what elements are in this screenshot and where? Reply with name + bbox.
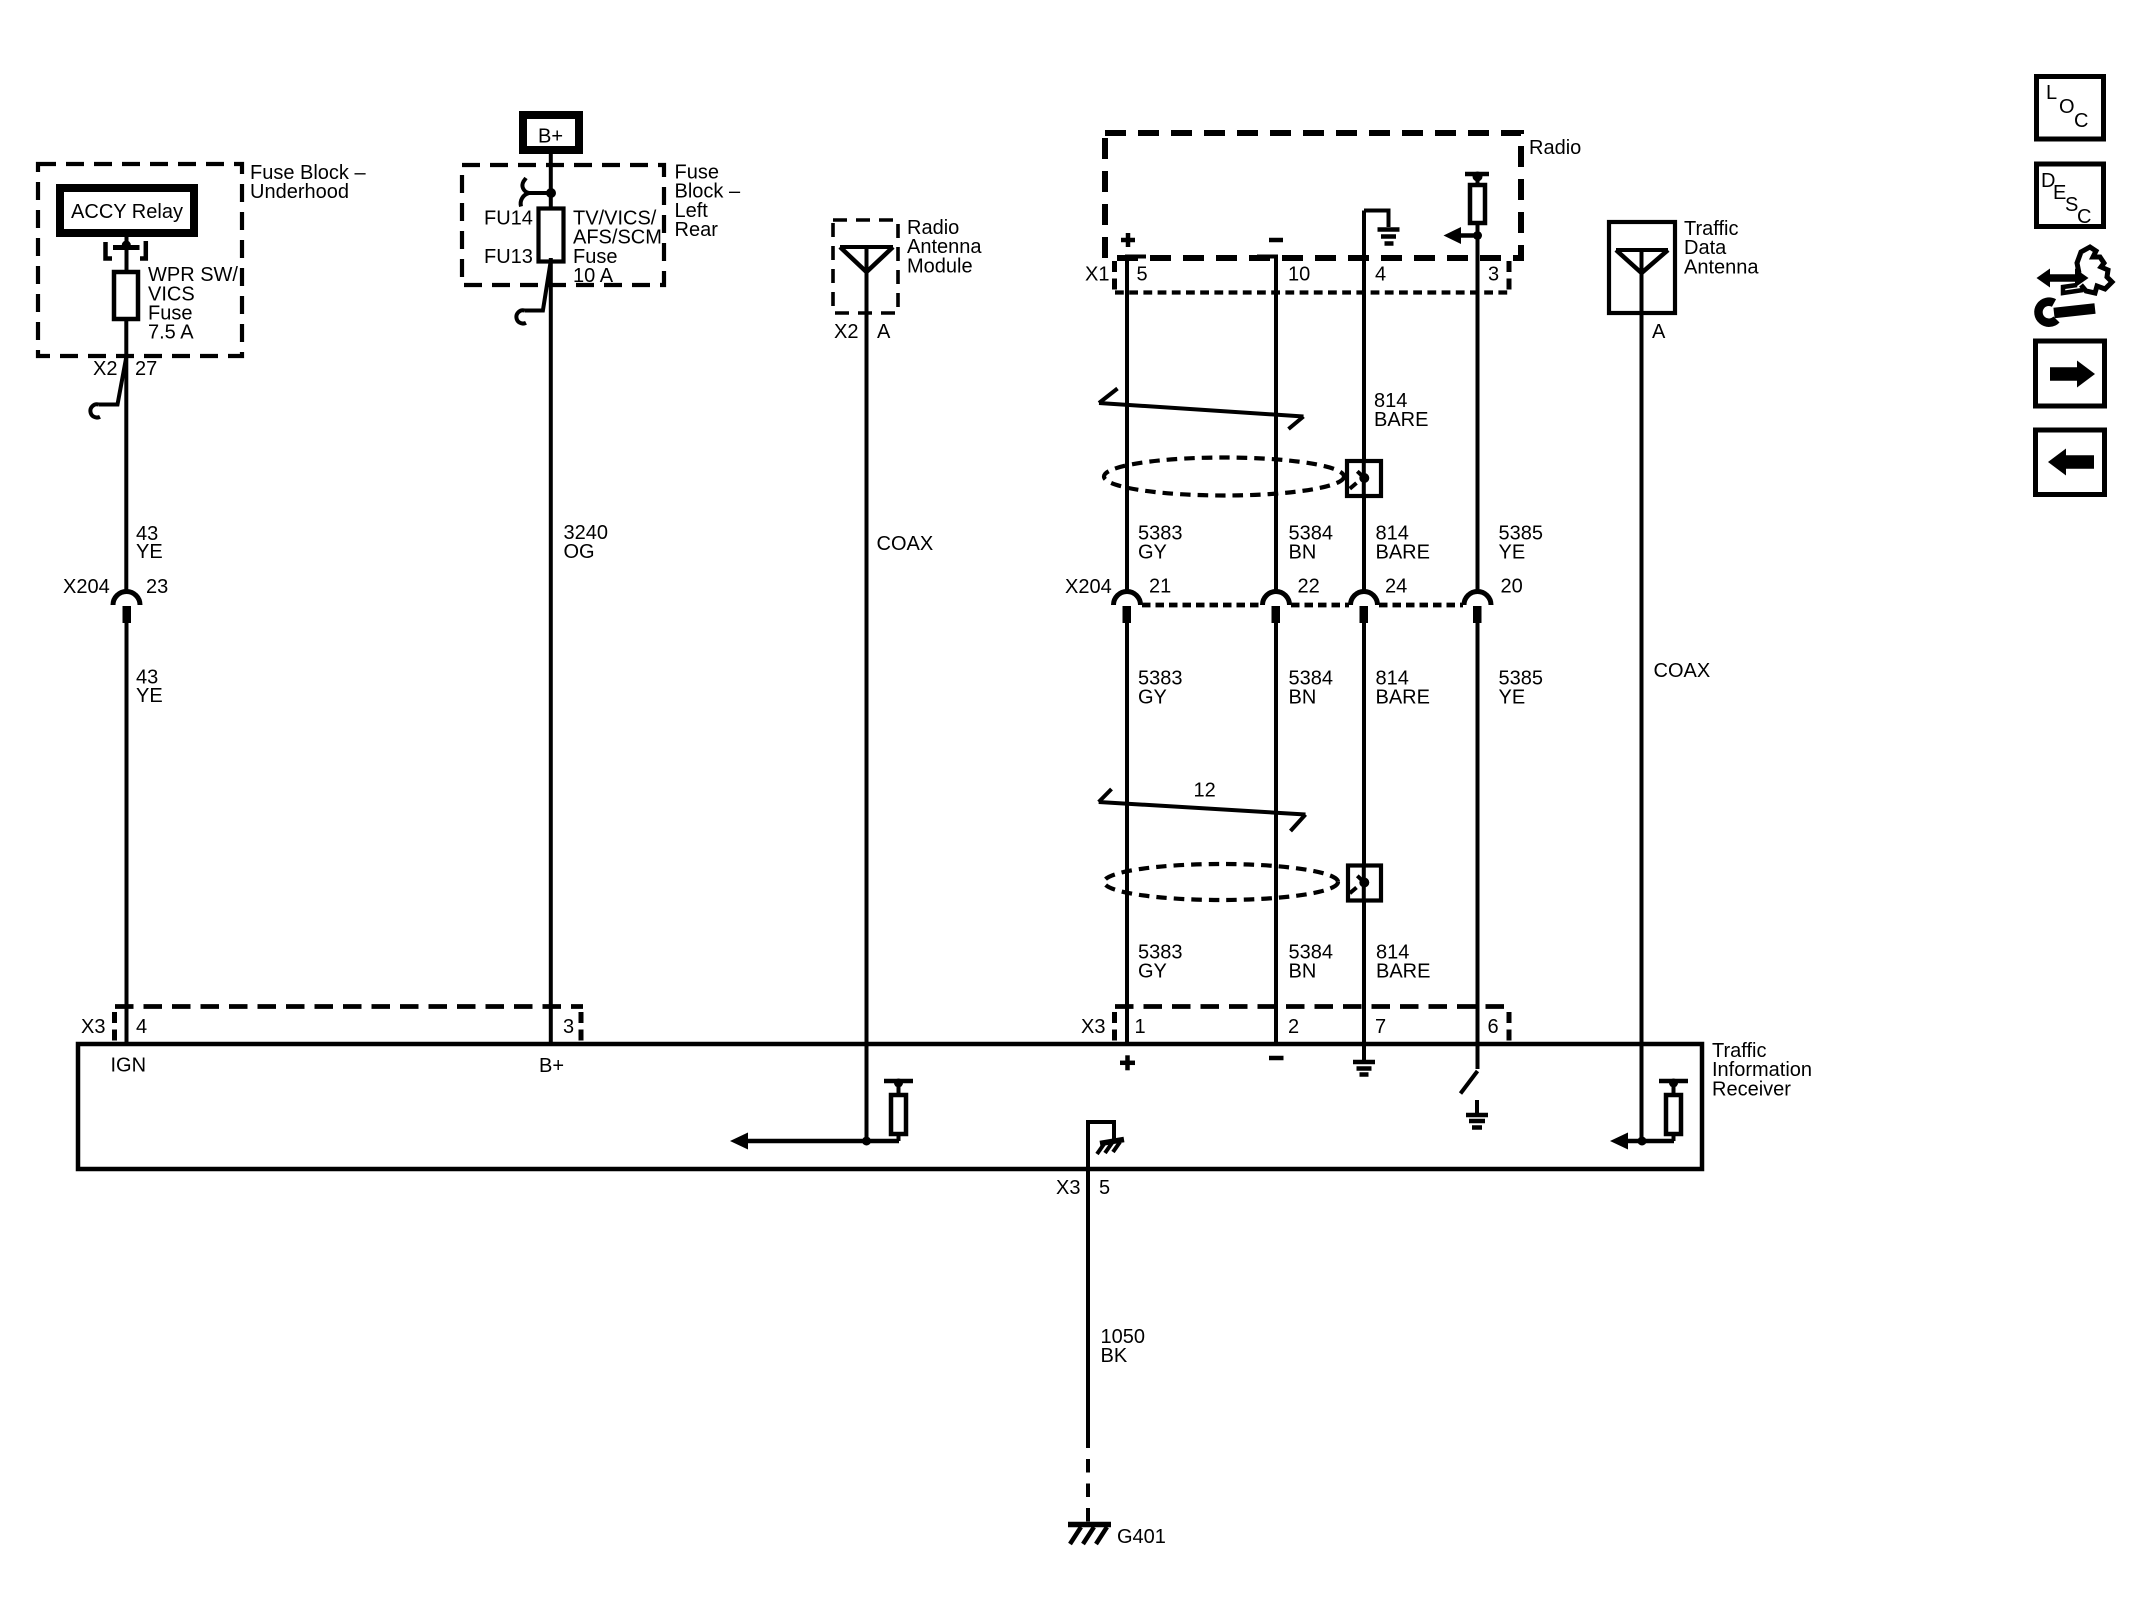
wire 814 BARE radio to X204: [1362, 211, 1366, 594]
radio dashed box: [1105, 133, 1521, 258]
svg-text:BK: BK: [1101, 1345, 1128, 1367]
label 5383 GY row2: [1138, 667, 1183, 708]
svg-text:BN: BN: [1289, 542, 1317, 564]
svg-text:YE: YE: [136, 685, 163, 707]
svg-text:7.5 A: 7.5 A: [148, 322, 194, 344]
label 5384 BN row1: [1289, 523, 1334, 564]
label 3240 OG: [564, 522, 609, 563]
wire 5383 GY X204 to X3: [1125, 623, 1129, 1044]
svg-text:C: C: [2074, 110, 2088, 132]
svg-text:Radio: Radio: [1529, 137, 1581, 159]
wire fuse to X204: [124, 319, 128, 593]
svg-text:GY: GY: [1138, 687, 1167, 709]
radio terminal minus: [1269, 238, 1283, 243]
svg-text:X3: X3: [1081, 1016, 1105, 1038]
connector X3 left row: [81, 1007, 583, 1042]
wire 3240 OG: [549, 258, 553, 1044]
pigtail at X2: [90, 357, 126, 418]
svg-text:COAX: COAX: [877, 533, 934, 555]
label Fuse Block Underhood: [250, 162, 366, 203]
radio internal resistor: [1465, 172, 1489, 236]
shield drain box lower: [1348, 866, 1381, 901]
svg-text:24: 24: [1385, 576, 1407, 598]
wire COAX left: [865, 313, 869, 1044]
svg-text:3: 3: [563, 1016, 574, 1038]
icon forward button: [2036, 341, 2105, 406]
splice dot and pigtail FU14: [521, 178, 556, 207]
wire 5383 GY radio to X204: [1127, 257, 1146, 594]
wire relay to fuse: [125, 233, 129, 272]
svg-text:ACCY Relay: ACCY Relay: [71, 201, 183, 223]
svg-text:O: O: [2059, 96, 2075, 118]
connector X3 right row: [1081, 1007, 1509, 1042]
svg-text:YE: YE: [136, 541, 163, 563]
svg-text:OG: OG: [564, 541, 595, 563]
svg-text:BARE: BARE: [1374, 409, 1428, 431]
traffic data antenna box: [1609, 222, 1675, 313]
label 43 YE upper: [136, 523, 163, 563]
connector X2 pin A labels: [834, 321, 891, 343]
svg-text:A: A: [877, 321, 891, 343]
wire 5384 BN radio to X204: [1257, 257, 1276, 594]
label Traffic Data Antenna: [1684, 218, 1759, 278]
fuse block left rear dashed box: [462, 165, 664, 285]
svg-text:5: 5: [1099, 1177, 1110, 1199]
shield drain box upper: [1347, 461, 1381, 496]
icon DESC button: [2037, 164, 2104, 228]
svg-text:GY: GY: [1138, 961, 1167, 983]
svg-text:B+: B+: [539, 1055, 564, 1077]
ground G401: [1068, 1525, 1111, 1545]
svg-text:4: 4: [136, 1016, 147, 1038]
wire 43 YE lower: [125, 623, 129, 1044]
label 814 BARE row1: [1376, 523, 1430, 564]
fuse WPR SW/VICS 7.5 A: [114, 272, 138, 319]
shield ellipse upper: [1104, 458, 1344, 496]
svg-text:A: A: [1652, 321, 1666, 343]
svg-text:YE: YE: [1499, 542, 1526, 564]
receiver pin 7 ground: [1353, 1044, 1375, 1075]
label 43 YE lower: [136, 667, 163, 707]
label 5383 GY row3: [1138, 941, 1183, 982]
label 5385 YE row1: [1499, 523, 1544, 564]
label Radio Antenna Module: [907, 217, 982, 277]
label 5384 BN row2: [1289, 667, 1334, 708]
fuse block underhood dashed box: [38, 164, 242, 356]
svg-text:X204: X204: [63, 576, 110, 598]
label Traffic Information Receiver: [1712, 1040, 1812, 1100]
receiver internal ground at X3 pin 5: [1088, 1122, 1124, 1169]
svg-text:BARE: BARE: [1376, 961, 1430, 983]
receiver X1 coax input arrow and resistor: [1610, 1044, 1688, 1150]
icon LOC button: [2037, 77, 2104, 140]
svg-text:10 A: 10 A: [573, 265, 614, 287]
svg-text:L: L: [2046, 82, 2057, 104]
receiver pin 2 minus: [1269, 1056, 1284, 1061]
twisted pair arrow lower: [1099, 789, 1306, 831]
receiver pin 1 +: [1120, 1055, 1135, 1070]
radio antenna module dashed box: [833, 220, 898, 313]
receiver pin 6 switch to ground: [1461, 1044, 1489, 1128]
svg-text:5: 5: [1137, 264, 1148, 286]
svg-text:GY: GY: [1138, 542, 1167, 564]
label TV/VICS/AFS/SCM Fuse 10 A: [573, 208, 662, 288]
svg-text:BARE: BARE: [1376, 542, 1430, 564]
antenna symbol traffic data antenna: [1616, 250, 1668, 313]
receiver X2 coax input arrow and resistor: [730, 1044, 913, 1150]
label WPR SW/VICS Fuse 7.5 A: [148, 264, 238, 344]
svg-text:X204: X204: [1065, 576, 1112, 598]
svg-text:IGN: IGN: [111, 1055, 147, 1077]
svg-text:20: 20: [1501, 576, 1523, 598]
svg-text:1: 1: [1135, 1016, 1146, 1038]
label 814 BARE upper: [1374, 390, 1428, 431]
connector X204 row: [1065, 576, 1523, 623]
svg-text:Underhood: Underhood: [250, 181, 349, 203]
label 5383 GY row1: [1138, 523, 1183, 564]
antenna symbol radio antenna module: [840, 247, 893, 313]
radio terminal +: [1121, 233, 1135, 247]
connector X204 pin 23: [63, 576, 168, 623]
wire 5384 BN X204 to X3: [1274, 623, 1278, 1044]
wire B+ to fuse: [549, 154, 553, 208]
wire 814 BARE X204 to X3: [1362, 623, 1366, 1044]
label 814 BARE row3: [1376, 941, 1430, 982]
svg-text:3: 3: [1488, 264, 1499, 286]
svg-text:G401: G401: [1117, 1526, 1166, 1548]
relay contact: [106, 241, 146, 259]
icon workshop wrench: [2037, 247, 2113, 323]
svg-text:BN: BN: [1289, 687, 1317, 709]
svg-text:2: 2: [1288, 1016, 1299, 1038]
svg-text:7: 7: [1375, 1016, 1386, 1038]
svg-text:23: 23: [146, 576, 168, 598]
shield ellipse lower: [1104, 864, 1338, 900]
svg-text:YE: YE: [1499, 687, 1526, 709]
svg-text:21: 21: [1149, 576, 1171, 598]
svg-text:X2: X2: [93, 358, 117, 380]
svg-text:X2: X2: [834, 321, 858, 343]
twisted pair arrow upper: [1099, 389, 1304, 430]
svg-text:FU13: FU13: [484, 246, 533, 268]
svg-text:12: 12: [1194, 780, 1216, 802]
svg-text:C: C: [2077, 206, 2091, 228]
svg-text:X1: X1: [1085, 264, 1109, 286]
svg-text:FU14: FU14: [484, 207, 533, 229]
svg-text:4: 4: [1375, 264, 1386, 286]
fuse TV/VICS/AFS/SCM 10 A: [539, 209, 564, 262]
svg-text:22: 22: [1298, 576, 1320, 598]
wire dashed to ground: [1086, 1459, 1090, 1522]
label 1050 BK: [1101, 1326, 1146, 1367]
label Fuse Block Left Rear: [675, 161, 741, 241]
wire 5385 YE radio to X204: [1476, 236, 1480, 594]
relay ACCY Relay: [60, 188, 194, 233]
svg-text:BN: BN: [1289, 961, 1317, 983]
svg-text:X3: X3: [1056, 1177, 1080, 1199]
B+ power symbol: [523, 115, 579, 150]
traffic information receiver box: [78, 1044, 1702, 1169]
connector X3 pin 5 labels: [1056, 1177, 1110, 1199]
svg-text:Rear: Rear: [675, 219, 719, 241]
wire COAX right: [1640, 313, 1644, 1044]
svg-text:BARE: BARE: [1376, 687, 1430, 709]
svg-text:B+: B+: [538, 126, 563, 148]
svg-text:X3: X3: [81, 1016, 105, 1038]
wire 5385 YE X204 to X3: [1476, 623, 1480, 1044]
svg-text:6: 6: [1488, 1016, 1499, 1038]
label 5385 YE row2: [1499, 667, 1544, 708]
svg-text:Module: Module: [907, 255, 973, 277]
svg-text:COAX: COAX: [1654, 660, 1711, 682]
pigtail below fuse: [516, 262, 550, 324]
label 5384 BN row3: [1289, 941, 1334, 982]
connector X2 pin 27 labels: [93, 358, 157, 380]
connector X1 row: [1085, 261, 1509, 293]
icon back button: [2036, 430, 2105, 495]
svg-text:10: 10: [1288, 264, 1310, 286]
svg-text:27: 27: [135, 358, 157, 380]
wire 1050 BK: [1086, 1169, 1090, 1448]
label 814 BARE row2: [1376, 667, 1430, 708]
radio internal arrow: [1444, 227, 1483, 244]
svg-text:Receiver: Receiver: [1712, 1078, 1791, 1100]
svg-text:Antenna: Antenna: [1684, 256, 1759, 278]
radio internal ground: [1364, 211, 1400, 244]
